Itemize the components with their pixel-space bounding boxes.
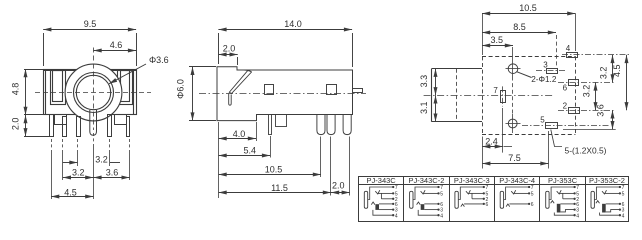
svg-text:7: 7 [531, 185, 534, 191]
svg-text:2.0: 2.0 [332, 180, 345, 190]
svg-text:4.8: 4.8 [10, 83, 20, 96]
dim 10.5 (top view width) [482, 3, 576, 55]
svg-text:10.5: 10.5 [265, 165, 283, 175]
svg-text:7.5: 7.5 [508, 153, 521, 163]
front view: centerlines [35, 48, 151, 131]
dim 2.0 (barrel depth) [218, 44, 237, 66]
side view: round pin 2 [327, 115, 335, 135]
top view: pin 6 [558, 80, 615, 93]
front view: pin A (left lug) [50, 115, 54, 137]
table cell PJ-343C schematic [364, 185, 398, 219]
svg-text:4.5: 4.5 [612, 64, 622, 77]
svg-text:3.5: 3.5 [490, 35, 503, 45]
dim 2.0 (pin pitch) [331, 180, 350, 192]
svg-text:5-(1.2X0.5): 5-(1.2X0.5) [565, 146, 607, 156]
svg-text:4.0: 4.0 [233, 129, 246, 139]
front view: pin C [77, 117, 81, 137]
dim 7.5 [482, 153, 548, 164]
label 5-(1.2X0.5) with leader [551, 130, 607, 156]
svg-text:7: 7 [493, 86, 498, 95]
svg-text:4: 4 [440, 213, 443, 219]
dim 3.2 (pin C to center, offset text) [63, 154, 120, 164]
svg-text:4.5: 4.5 [64, 188, 77, 198]
top view: pin 7 [493, 86, 505, 107]
svg-text:7: 7 [486, 185, 489, 191]
dim dia 6.0 (barrel) [175, 67, 216, 121]
dim 11.5 [219, 183, 332, 193]
front view: left ear slot [51, 71, 66, 105]
table cell PJ-353C schematic [546, 185, 580, 219]
table cell PJ-343C-2 schematic [410, 185, 444, 219]
front view: ring circles (jack opening) [74, 73, 114, 113]
top view: pin 4 [562, 44, 630, 58]
dim 3.2 (pin B to center) [63, 168, 94, 178]
dim 4.6 [94, 40, 137, 51]
dim 2.0 (front lower height) [10, 115, 49, 137]
svg-text:3.2: 3.2 [95, 154, 108, 164]
top view: hole 2 (dia 1.2) [506, 114, 521, 133]
svg-text:4.6: 4.6 [110, 40, 123, 50]
table headers [367, 176, 625, 185]
dim 3.3 (left) [419, 69, 436, 96]
svg-text:3.6: 3.6 [596, 104, 606, 117]
svg-text:4: 4 [622, 213, 625, 219]
label 2-dia1.2 with leader [517, 72, 557, 84]
svg-text:4: 4 [395, 213, 398, 219]
svg-text:7: 7 [395, 185, 398, 191]
front view: center pin seen through hole [90, 110, 97, 135]
dim 10.5 (side) [219, 165, 322, 175]
svg-text:2.4: 2.4 [485, 136, 498, 146]
front view: pin F stub and lead [115, 115, 127, 125]
svg-text:6: 6 [563, 84, 568, 93]
dim 3.2 (pin6 to pin2) [582, 82, 596, 110]
svg-text:PJ-353C: PJ-353C [548, 176, 578, 185]
label dia 3.6 with leader [109, 55, 169, 84]
svg-text:3.1: 3.1 [419, 101, 429, 114]
svg-text:11.5: 11.5 [271, 183, 288, 193]
front view: jack body [43, 70, 136, 116]
dim 3.2 (pin4 to pin6) [599, 55, 613, 83]
front view: pin G (right lead) [127, 117, 130, 137]
svg-text:2.0: 2.0 [223, 44, 236, 54]
svg-text:5: 5 [622, 192, 625, 198]
front view: right ear slot [118, 71, 133, 105]
side view: rect pin [276, 115, 287, 127]
top view: pin 2 [558, 101, 615, 113]
table cell PJ-343C-3 schematic [455, 185, 489, 208]
svg-text:PJ-343C: PJ-343C [367, 176, 397, 185]
svg-text:7: 7 [576, 185, 579, 191]
svg-text:PJ-343C-3: PJ-343C-3 [454, 176, 490, 185]
dim 4.5 (pin A to center) [51, 188, 93, 198]
dim 2.4 [482, 136, 512, 146]
svg-text:4: 4 [576, 213, 579, 219]
table cell PJ-343C-4 schematic [500, 185, 534, 208]
top view: pin 5 [522, 116, 616, 130]
dim 4.5 (pin4 to pin2) [612, 55, 627, 110]
svg-text:7: 7 [622, 185, 625, 191]
side view: round pin 1 [317, 115, 325, 135]
svg-text:2.0: 2.0 [10, 118, 20, 131]
top view: hole 1 (dia 1.2) [506, 61, 521, 77]
top view: horizontal centerline [424, 95, 554, 97]
front view: pin E [108, 115, 112, 137]
svg-text:6: 6 [486, 202, 489, 208]
front view: extension lines below pins [52, 133, 130, 199]
top view: hole column centerline [512, 77, 514, 115]
svg-text:5.4: 5.4 [244, 146, 257, 156]
side view: terminal window 2 [327, 85, 337, 95]
top view: extension lines below [483, 108, 549, 169]
dim 14.0 (side length) [218, 19, 352, 67]
svg-text:5: 5 [531, 192, 534, 198]
svg-text:Φ3.6: Φ3.6 [149, 55, 169, 65]
svg-text:9.5: 9.5 [84, 19, 97, 29]
side view: housing outline [217, 67, 353, 121]
svg-text:3.2: 3.2 [72, 168, 85, 178]
side view: round pin 3 [343, 115, 351, 135]
dim 3.1 (left) [419, 95, 436, 121]
side view: centerline [199, 93, 366, 95]
svg-text:10.5: 10.5 [519, 3, 537, 13]
dim 5.4 [219, 146, 271, 156]
side view: spring contact [229, 70, 252, 105]
dim 4.0 [219, 129, 257, 139]
svg-text:2: 2 [563, 101, 568, 110]
svg-text:2-Φ1.2: 2-Φ1.2 [531, 75, 557, 84]
dim 8.5 [482, 22, 557, 66]
svg-text:PJ-343C-2: PJ-343C-2 [409, 176, 445, 185]
side view: pin 4 side tab [353, 89, 363, 93]
top view: hidden body outline (dashed) [482, 56, 576, 134]
svg-text:3: 3 [543, 61, 548, 70]
dim 3.6 (center to pin G) [93, 168, 129, 178]
svg-text:6: 6 [531, 202, 534, 208]
svg-text:3.2: 3.2 [582, 85, 592, 98]
svg-text:5: 5 [440, 192, 443, 198]
variants table grid [359, 176, 629, 221]
svg-text:3.6: 3.6 [106, 168, 119, 178]
svg-text:14.0: 14.0 [284, 19, 302, 29]
dim 9.5 (front width) [43, 19, 136, 66]
top view: barrel outline [432, 69, 483, 122]
front view: bushing outer circle [65, 64, 122, 121]
svg-text:5: 5 [540, 116, 545, 125]
dim 4.8 (front height) [10, 69, 44, 115]
side view: extension lines below [219, 122, 350, 198]
top view: pin 3 [536, 61, 566, 74]
svg-text:Φ6.0: Φ6.0 [175, 79, 185, 99]
svg-text:PJ-343C-4: PJ-343C-4 [499, 176, 535, 185]
front view: pin B stub and lead [55, 115, 67, 137]
svg-text:4: 4 [566, 44, 571, 53]
svg-text:7: 7 [440, 185, 443, 191]
svg-text:3.3: 3.3 [419, 75, 429, 88]
svg-text:PJ-353C-2: PJ-353C-2 [589, 176, 625, 185]
dim 3.5 [482, 35, 513, 61]
side view: terminal window 1 [265, 85, 274, 95]
dim 3.6 (pin2 to pin5) [596, 104, 613, 129]
svg-text:8.5: 8.5 [513, 22, 526, 32]
svg-text:3.2: 3.2 [599, 67, 609, 80]
table cell PJ-353C-2 schematic [591, 185, 625, 219]
side view: thin pin [269, 115, 272, 135]
